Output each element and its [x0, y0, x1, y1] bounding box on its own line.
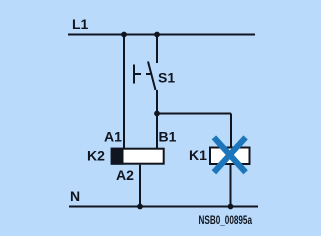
wire N bus: [69, 206, 258, 208]
wire A1 branch drop: [123, 35, 125, 149]
switch S1 contact blade: [148, 62, 156, 91]
svg-text:L1: L1: [72, 16, 89, 32]
svg-text:K1: K1: [189, 147, 207, 163]
svg-text:A1: A1: [104, 129, 122, 145]
svg-text:NSB0_00895a: NSB0_00895a: [199, 213, 253, 227]
wire S1 branch top: [156, 35, 158, 64]
wire junction to K1 horizontal: [157, 113, 231, 115]
wire S1 branch bottom: [156, 90, 158, 114]
svg-text:N: N: [70, 188, 80, 204]
wire B1 drop: [156, 114, 158, 149]
svg-text:A2: A2: [116, 167, 134, 183]
relay coil K2 body: [112, 149, 164, 164]
K1 crossed-out X mark: [214, 137, 246, 172]
svg-text:B1: B1: [159, 129, 177, 145]
junction dot A2/N: [137, 204, 143, 210]
junction dot S1/K1 branch: [154, 111, 160, 117]
junction dot L1/A1: [121, 32, 127, 38]
junction dot L1/S1: [154, 32, 160, 38]
wire L1 bus: [68, 34, 255, 36]
switch S1 actuator link dashes: [134, 73, 141, 75]
relay coil K1 body: [210, 148, 250, 165]
junction dot K1/N: [228, 204, 234, 210]
switch S1 actuator bar: [133, 65, 135, 84]
svg-text:K2: K2: [87, 148, 105, 164]
relay coil K2 black section: [111, 148, 124, 165]
svg-text:S1: S1: [158, 70, 175, 86]
wire K1 bottom drop to N: [230, 165, 232, 207]
wire K1 drop: [230, 114, 232, 148]
wire A2 drop to N: [139, 165, 141, 207]
